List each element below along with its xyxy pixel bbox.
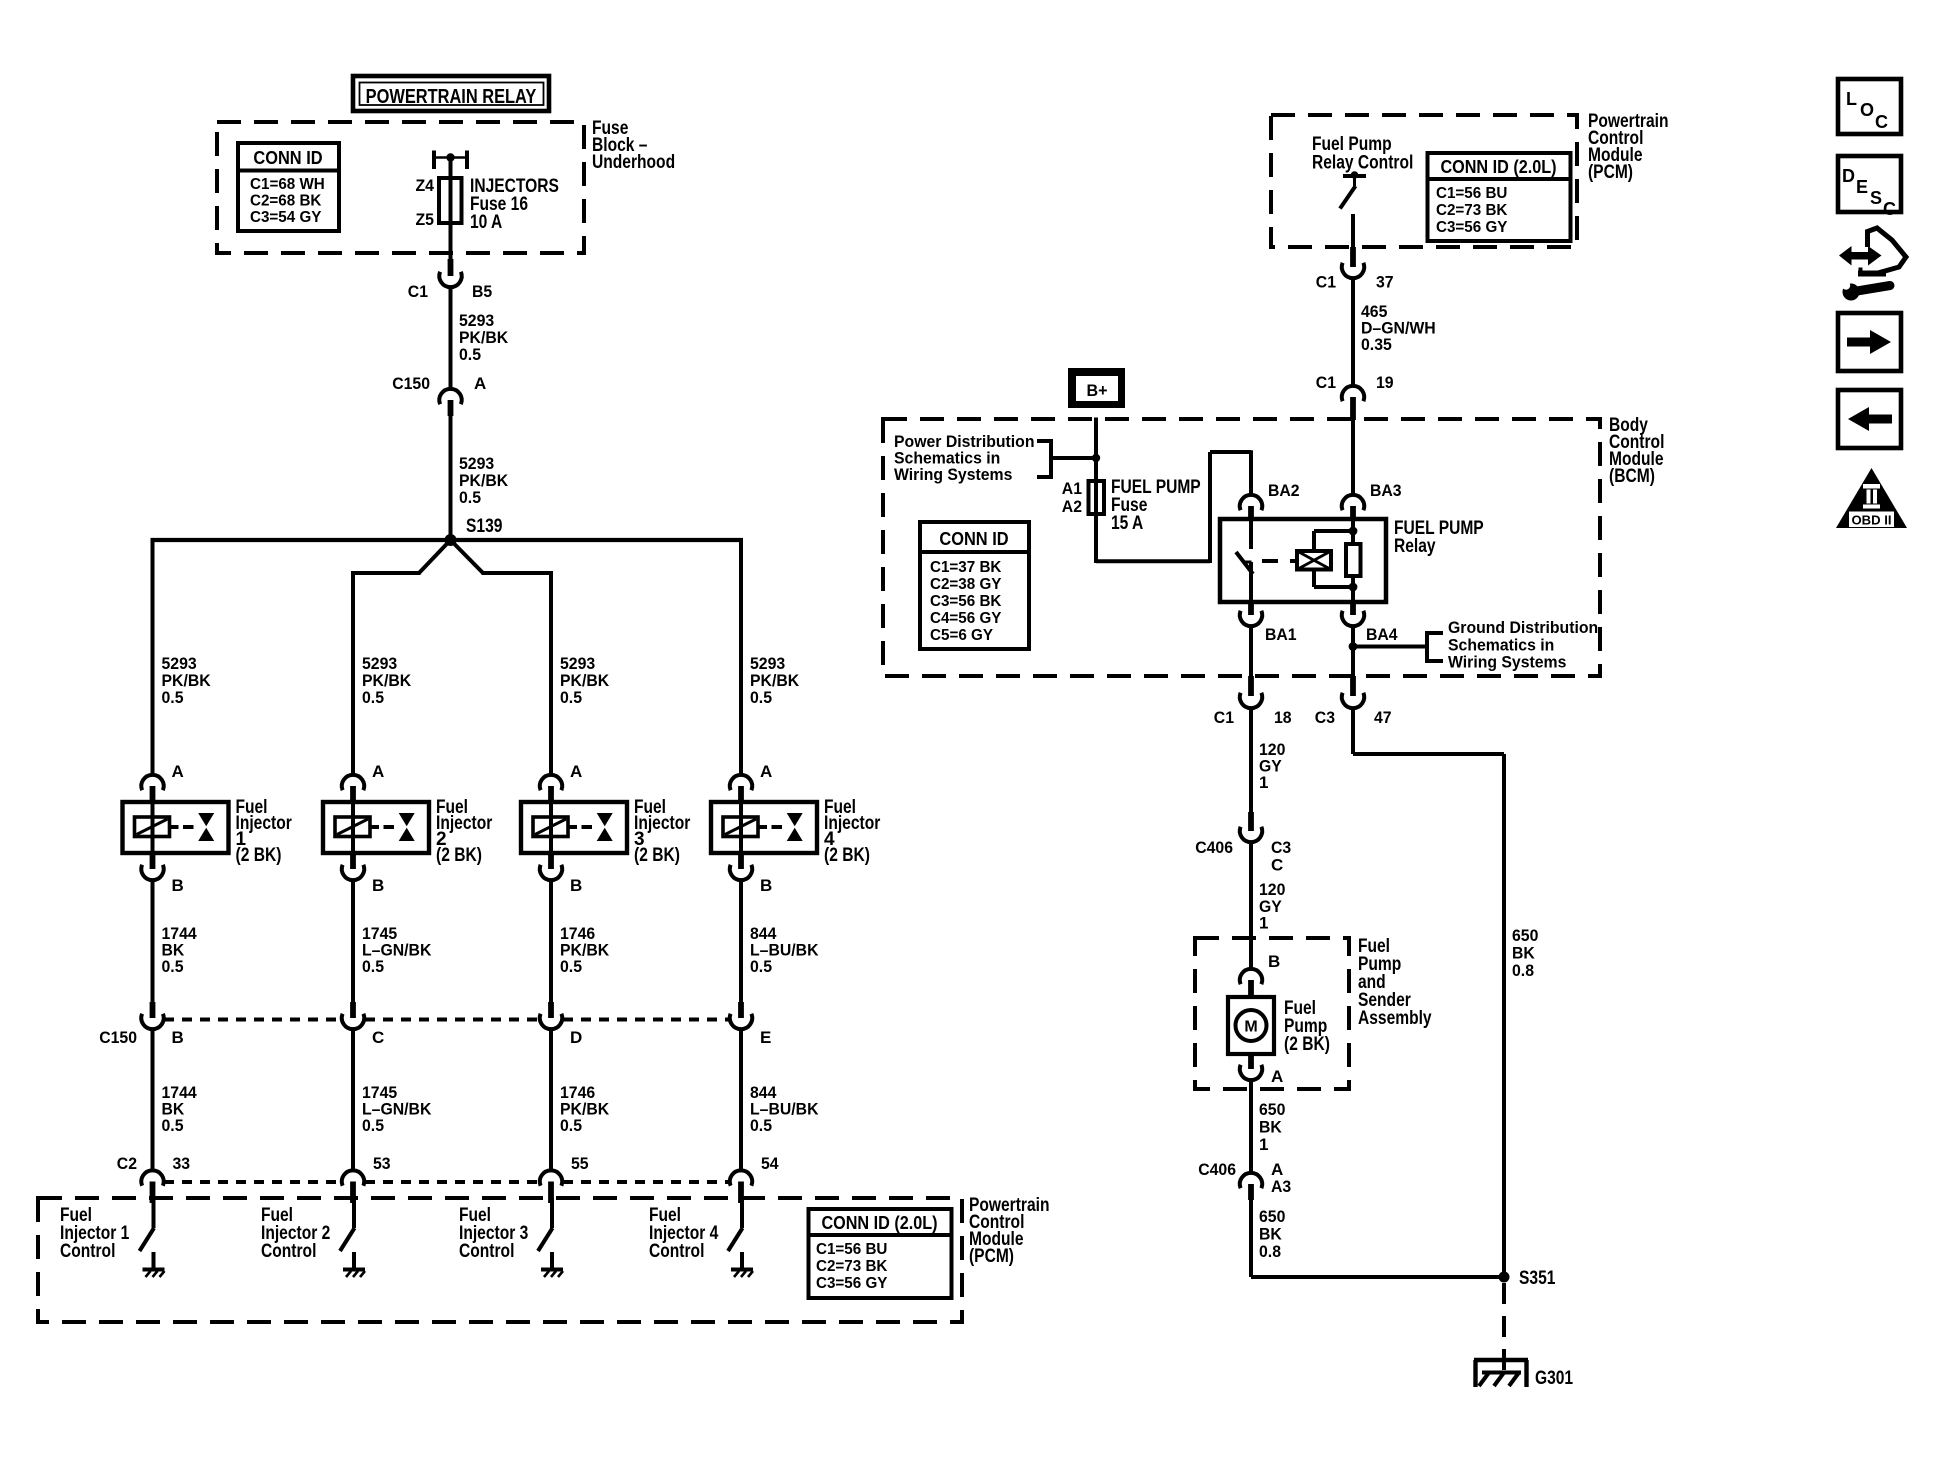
PCM box bottom (dashed) [38,1198,962,1322]
icon back arrow box [1838,390,1901,448]
svg-text:(2 BK): (2 BK) [1284,1034,1330,1055]
connector BA2 [1240,481,1300,520]
wire 1745 col2 lower [353,1029,432,1171]
relay switch [1236,519,1253,602]
wire BA4 down [1349,626,1427,677]
ground G301 [1474,1360,1573,1389]
svg-text:BA4: BA4 [1366,625,1398,644]
bracket (ground distribution) [1427,631,1443,663]
wire 844 col4 [741,880,819,1003]
wire label 5293 col4 [750,654,800,707]
label Fuse Block - Underhood [592,118,675,173]
svg-text:OBD II: OBD II [1852,514,1892,528]
relay actuator dashes [1262,559,1297,563]
svg-text:Relay: Relay [1394,536,1436,557]
connector C150 E [730,1002,772,1047]
svg-text:A: A [570,762,582,781]
wire S139 bus [151,538,744,542]
svg-text:A: A [372,762,384,781]
icon DESC box [1838,156,1901,219]
connector C1 18 [1214,676,1292,727]
svg-text:B: B [570,876,582,895]
svg-text:650: 650 [1259,1207,1285,1226]
wire 650 BK 1 [1251,1080,1285,1172]
svg-text:650: 650 [1259,1100,1285,1119]
wire 1744 col1 lower [153,1029,198,1171]
svg-text:C: C [372,1028,384,1047]
fuel injector 4 [711,797,881,866]
svg-text:C150: C150 [99,1028,137,1047]
label C150 (row1) [99,1028,137,1047]
svg-text:G301: G301 [1535,1368,1573,1389]
label Ground Distribution Schematics [1448,618,1598,672]
svg-text:C1: C1 [408,282,428,301]
svg-text:BA1: BA1 [1265,625,1297,644]
wire 120 GY upper [1251,708,1285,812]
wire branch col1 [151,538,155,776]
svg-text:B: B [372,876,384,895]
fuel injector 2 [323,797,493,866]
label Powertrain Control Module PCM (bottom) [969,1195,1050,1267]
svg-text:L: L [1846,89,1857,109]
wire 1746 col3 [551,880,610,1003]
wire C3-47 elbow [1353,708,1504,1277]
svg-text:B: B [760,876,772,895]
PCM box top (dashed) [1271,115,1577,247]
svg-text:C3=56 GY: C3=56 GY [816,1275,888,1292]
wire S351 to ground (dashed) [1502,1283,1506,1373]
svg-text:55: 55 [571,1154,589,1173]
svg-text:C: C [1271,856,1283,875]
svg-text:Assembly: Assembly [1358,1008,1432,1029]
connector C406 A-A3 [1198,1160,1291,1200]
wire branch col4 [739,538,743,776]
label Powertrain Control Module PCM (top) [1588,111,1669,183]
svg-text:0.5: 0.5 [560,688,582,707]
fuel injector 1 control switch [140,1198,155,1268]
title box POWERTRAIN RELAY [353,76,549,111]
svg-text:C1=68 WH: C1=68 WH [250,176,325,193]
svg-text:0.5: 0.5 [560,957,582,976]
wire 5293 to splice [451,416,509,540]
connector fuel pump A [1240,1054,1283,1086]
label Fuel Injector 3 Control [459,1205,528,1262]
svg-text:C1=56 BU: C1=56 BU [816,1241,887,1258]
wire label 650 BK 0.8 (right) [1512,926,1538,980]
svg-text:19: 19 [1376,373,1394,392]
svg-text:D: D [1842,166,1855,186]
svg-text:A3: A3 [1271,1177,1291,1196]
wire to S351 [1251,1275,1504,1279]
BCM box (dashed) [883,419,1600,676]
label FUEL PUMP Relay [1394,518,1484,557]
svg-text:POWERTRAIN RELAY: POWERTRAIN RELAY [366,86,537,108]
svg-text:CONN ID: CONN ID [939,529,1008,549]
svg-text:(PCM): (PCM) [1588,162,1633,183]
connector BA1 [1240,602,1297,644]
label Fuel Injector 4 Control [649,1205,719,1262]
connector C3 47 [1315,676,1392,727]
wire 1744 col1 [153,880,198,1003]
wire C1-19 to BA3 [1351,420,1355,496]
svg-text:650: 650 [1512,926,1538,945]
svg-text:C406: C406 [1198,1160,1236,1179]
svg-text:C406: C406 [1195,838,1233,857]
svg-text:C3=56 GY: C3=56 GY [1436,219,1508,236]
svg-text:0.5: 0.5 [362,957,384,976]
connector C2 pin 33 [141,1154,190,1203]
svg-text:Schematics in: Schematics in [1448,635,1554,654]
svg-text:C: C [1875,112,1888,132]
splice S139 [445,516,503,546]
svg-text:B: B [172,876,184,895]
svg-text:C3: C3 [1315,708,1335,727]
svg-text:0.5: 0.5 [750,688,772,707]
wire label 5293 col2 [362,654,412,707]
svg-text:CONN ID (2.0L): CONN ID (2.0L) [1440,157,1556,177]
connector C406 C3-C [1195,812,1291,875]
svg-text:(BCM): (BCM) [1609,466,1655,487]
wire B+ to fuse [1092,418,1100,479]
svg-text:0.5: 0.5 [459,345,481,364]
svg-text:BA2: BA2 [1268,481,1300,500]
svg-text:Wiring Systems: Wiring Systems [894,465,1012,484]
label Fuel Pump Relay Control [1312,134,1413,174]
label Fuel Pump and Sender Assembly [1358,936,1432,1029]
svg-text:Relay Control: Relay Control [1312,153,1413,174]
svg-text:C4=56 GY: C4=56 GY [930,610,1002,627]
svg-text:37: 37 [1376,273,1394,292]
conn id box PCM top [1428,153,1571,241]
fuel pump motor [1228,997,1274,1054]
dotted line C2 row [164,1180,729,1184]
label Power Distribution Schematics [894,432,1035,484]
wire 1745 col2 [353,880,432,1003]
label Fuel Pump (2 BK) [1284,998,1330,1055]
fuel injector 2 control switch [340,1198,355,1268]
svg-text:47: 47 [1374,708,1392,727]
svg-text:1: 1 [1259,914,1268,933]
svg-text:0.5: 0.5 [750,957,772,976]
svg-text:CONN ID: CONN ID [253,148,322,168]
fuel injector 3 control switch [538,1198,553,1268]
svg-text:0.5: 0.5 [459,488,481,507]
svg-text:C150: C150 [392,374,430,393]
svg-text:Underhood: Underhood [592,152,675,173]
svg-text:C1=56 BU: C1=56 BU [1436,185,1507,202]
connector C2 pin 54 [730,1154,779,1203]
svg-text:S139: S139 [466,516,502,537]
wire 844 col4 lower [741,1029,819,1171]
svg-text:10 A: 10 A [470,212,503,233]
connector fuel pump B [1240,952,1280,997]
svg-text:1: 1 [1259,1135,1268,1154]
wire 120 GY lower [1251,842,1285,969]
wire 650 BK 0.8 (left) [1251,1200,1285,1277]
svg-text:C3: C3 [1271,838,1291,857]
connector C1 37 [1316,247,1394,292]
svg-text:18: 18 [1274,708,1292,727]
connector injector 3 pin A [540,762,582,803]
relay coil [1297,531,1353,587]
connector injector 3 pin B [540,853,582,895]
wire BA1 down [1249,626,1253,677]
label Body Control Module BCM [1609,415,1664,487]
conn id box (fuse block) [238,143,339,231]
svg-text:BK: BK [1259,1118,1282,1137]
svg-text:B: B [1268,952,1280,971]
relay resistor [1346,519,1361,602]
fuse FUEL PUMP 15A [1062,477,1201,563]
icon check-vehicle (arrows and wrench) [1839,228,1906,301]
svg-text:C3=56 BK: C3=56 BK [930,593,1002,610]
label Fuel Injector 1 Control [60,1205,130,1262]
wire branch col2 [353,540,451,776]
svg-text:M: M [1244,1019,1257,1036]
svg-text:0.5: 0.5 [362,688,384,707]
ground (injector 2 control) [343,1270,365,1278]
svg-text:0.5: 0.5 [162,1116,184,1135]
svg-text:33: 33 [173,1154,191,1173]
svg-text:Z4: Z4 [416,176,435,195]
svg-text:Control: Control [459,1241,514,1262]
svg-text:0.5: 0.5 [750,1116,772,1135]
svg-text:C1: C1 [1316,373,1336,392]
wire label 5293 col1 [162,654,212,707]
svg-text:(2 BK): (2 BK) [634,845,680,866]
connector C2 pin 53 [342,1154,391,1203]
svg-text:D: D [570,1028,582,1047]
wire label 5293 col3 [560,654,610,707]
svg-text:0.5: 0.5 [162,957,184,976]
svg-text:B+: B+ [1086,381,1107,400]
svg-text:BA3: BA3 [1370,481,1402,500]
connector C150 A (top) [392,374,486,416]
svg-text:Ground Distribution: Ground Distribution [1448,618,1598,637]
icon OBD II triangle [1836,468,1907,528]
connector C150 B [141,1002,183,1047]
svg-text:0.5: 0.5 [162,688,184,707]
svg-text:B5: B5 [472,282,492,301]
ground (injector 4 control) [731,1270,753,1278]
svg-text:Wiring Systems: Wiring Systems [1448,653,1566,672]
svg-text:A: A [172,762,184,781]
fuel pump relay box [1220,519,1386,602]
fuel injector 3 [521,797,691,866]
connector C1 B5 [408,259,492,301]
dotted line C150 row [164,1018,729,1022]
fuse holder terminal [434,151,467,170]
ground (injector 3 control) [541,1270,563,1278]
svg-text:(2 BK): (2 BK) [436,845,482,866]
fuel injector 4 control switch [728,1198,743,1268]
svg-text:S351: S351 [1519,1268,1556,1289]
fuel pump and sender box (dashed) [1195,938,1349,1089]
svg-text:(PCM): (PCM) [969,1246,1014,1267]
svg-text:1: 1 [1259,773,1268,792]
bracket (power distribution) [1037,439,1093,479]
svg-text:53: 53 [373,1154,391,1173]
connector injector 1 pin A [141,762,183,803]
svg-text:E: E [1856,177,1868,197]
connector C2 pin 55 [540,1154,589,1203]
svg-text:Control: Control [60,1241,115,1262]
connector injector 2 pin A [342,762,384,803]
svg-text:BK: BK [1259,1225,1282,1244]
fuel injector 1 [123,797,293,866]
svg-text:(2 BK): (2 BK) [824,845,870,866]
connector injector 1 pin B [141,853,183,895]
svg-text:Control: Control [649,1241,704,1262]
svg-text:A: A [1271,1067,1283,1086]
fuse block underhood box (dashed) [217,122,584,253]
splice S351 [1499,1268,1556,1289]
connector C1 19 [1316,373,1394,420]
connector C150 D [540,1002,582,1047]
svg-text:0.8: 0.8 [1512,961,1534,980]
svg-text:A: A [474,374,486,393]
svg-text:C2=73 BK: C2=73 BK [1436,202,1508,219]
svg-text:C1: C1 [1316,273,1336,292]
svg-text:15 A: 15 A [1111,513,1144,534]
svg-text:B: B [172,1028,184,1047]
svg-text:BK: BK [1512,944,1535,963]
connector injector 2 pin B [342,853,384,895]
svg-text:A1: A1 [1062,479,1082,498]
wire 5293 upper [451,287,509,389]
svg-text:C1: C1 [1214,708,1234,727]
connector injector 4 pin B [730,853,772,895]
svg-text:A: A [760,762,772,781]
svg-text:0.5: 0.5 [560,1116,582,1135]
svg-text:C: C [1883,199,1896,219]
ground (injector 1 control) [143,1270,165,1278]
connector BA3 [1342,481,1402,520]
label C2 (row2) [117,1154,137,1173]
svg-text:C2=73 BK: C2=73 BK [816,1258,888,1275]
svg-text:Z5: Z5 [416,210,435,229]
conn id box PCM bottom [809,1209,952,1298]
svg-text:C2=68 BK: C2=68 BK [250,193,322,210]
wire branch col3 [451,540,552,776]
svg-text:CONN ID (2.0L): CONN ID (2.0L) [821,1213,937,1233]
svg-text:(2 BK): (2 BK) [236,845,282,866]
svg-text:0.35: 0.35 [1361,335,1392,354]
svg-text:A2: A2 [1062,497,1082,516]
svg-text:C2: C2 [117,1154,137,1173]
B+ box [1068,368,1125,408]
icon LOC box [1838,79,1901,134]
svg-text:C3=54 GY: C3=54 GY [250,209,322,226]
label Fuel Injector 2 Control [261,1205,330,1262]
fuse F16 INJECTORS [416,176,559,233]
svg-text:0.8: 0.8 [1259,1242,1281,1261]
connector C150 C [342,1002,384,1047]
svg-text:C5=6 GY: C5=6 GY [930,627,993,644]
icon forward arrow box [1838,313,1901,371]
svg-text:S: S [1870,188,1882,208]
connector BA4 [1342,602,1398,644]
connector injector 4 pin A [730,762,772,803]
svg-text:0.5: 0.5 [362,1116,384,1135]
wire fuse block [449,158,453,260]
svg-text:C1=37 BK: C1=37 BK [930,559,1002,576]
svg-text:C2=38 GY: C2=38 GY [930,576,1002,593]
svg-text:O: O [1860,100,1874,120]
wire fuse to BA2 [1096,450,1251,563]
fuel pump relay control switch [1340,171,1366,247]
svg-text:E: E [760,1028,771,1047]
wire 1746 col3 lower [551,1029,610,1171]
conn id box BCM [920,522,1029,649]
svg-text:54: 54 [761,1154,779,1173]
wire 465 D-GN/WH [1353,278,1436,386]
svg-text:Control: Control [261,1241,316,1262]
